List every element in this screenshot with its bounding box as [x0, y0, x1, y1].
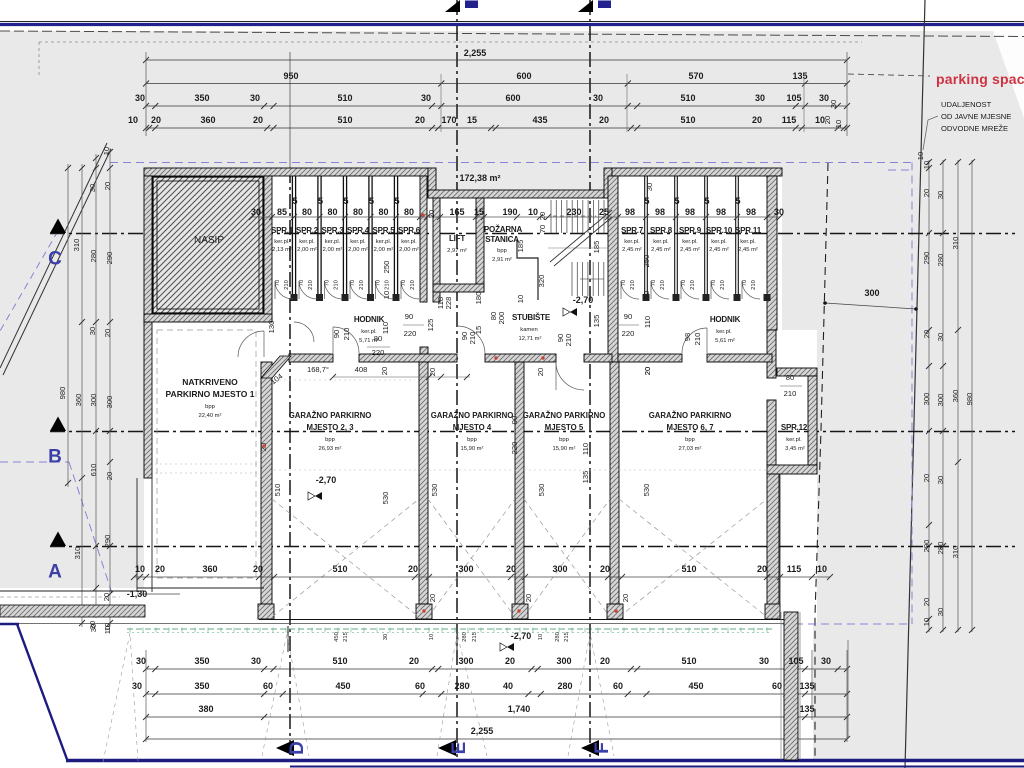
svg-text:20: 20 [506, 564, 516, 574]
svg-text:ker.pl.: ker.pl. [401, 239, 417, 245]
svg-text:2,255: 2,255 [464, 48, 487, 58]
svg-text:135: 135 [581, 471, 590, 484]
svg-text:2,45 m²: 2,45 m² [622, 247, 642, 253]
svg-text:300: 300 [105, 396, 114, 409]
svg-text:210: 210 [342, 328, 351, 341]
svg-text:MJESTO 5: MJESTO 5 [545, 423, 584, 432]
svg-text:30: 30 [135, 93, 145, 103]
svg-text:70: 70 [401, 280, 407, 286]
svg-text:10: 10 [817, 564, 827, 574]
svg-text:60: 60 [772, 681, 782, 691]
svg-text:MJESTO 2, 3: MJESTO 2, 3 [306, 423, 354, 432]
svg-text:172,38 m²: 172,38 m² [459, 173, 500, 183]
svg-text:30: 30 [755, 93, 765, 103]
svg-text:15: 15 [467, 115, 477, 125]
svg-text:70: 70 [299, 280, 305, 286]
svg-text:2,45 m²: 2,45 m² [738, 247, 758, 253]
svg-text:110: 110 [581, 443, 590, 455]
svg-text:280: 280 [555, 632, 561, 642]
svg-text:5: 5 [644, 196, 649, 206]
svg-text:280: 280 [462, 632, 468, 642]
svg-text:20: 20 [253, 115, 263, 125]
svg-text:ker.pl.: ker.pl. [711, 239, 727, 245]
svg-text:bpp: bpp [325, 437, 335, 443]
svg-text:27,03 m²: 27,03 m² [679, 446, 702, 452]
svg-text:bpp: bpp [467, 437, 477, 443]
svg-text:30: 30 [421, 93, 431, 103]
svg-text:105: 105 [788, 656, 803, 666]
svg-text:280: 280 [936, 254, 945, 267]
svg-text:20: 20 [408, 564, 418, 574]
svg-text:350: 350 [194, 656, 209, 666]
svg-text:310: 310 [951, 546, 960, 559]
svg-text:NASIP: NASIP [194, 235, 224, 246]
svg-text:20: 20 [428, 368, 437, 376]
svg-text:20: 20 [922, 330, 931, 338]
svg-text:90: 90 [405, 312, 413, 321]
svg-text:98: 98 [716, 207, 726, 217]
svg-text:510: 510 [681, 564, 696, 574]
svg-text:290: 290 [922, 252, 931, 265]
svg-text:300: 300 [458, 656, 473, 666]
svg-text:5: 5 [674, 196, 679, 206]
svg-text:30: 30 [645, 183, 654, 191]
svg-text:125: 125 [426, 319, 435, 332]
svg-text:20: 20 [155, 564, 165, 574]
svg-text:A: A [48, 562, 62, 583]
svg-text:parking spac: parking spac [936, 71, 1024, 87]
svg-text:980: 980 [965, 393, 974, 406]
svg-text:HODNIK: HODNIK [354, 315, 385, 324]
svg-text:30: 30 [251, 656, 261, 666]
svg-text:215: 215 [564, 632, 570, 642]
svg-text:bpp: bpp [497, 248, 507, 254]
svg-text:230: 230 [566, 207, 581, 217]
svg-text:SPR.7: SPR.7 [621, 226, 644, 235]
svg-text:2,91 m²: 2,91 m² [492, 257, 512, 263]
svg-text:530: 530 [381, 492, 390, 505]
svg-text:70: 70 [275, 280, 281, 286]
svg-text:320: 320 [537, 275, 546, 288]
svg-text:115: 115 [782, 115, 797, 125]
svg-text:ker.pl.: ker.pl. [624, 239, 640, 245]
svg-text:250: 250 [382, 261, 391, 274]
svg-text:30: 30 [89, 624, 98, 632]
svg-text:185: 185 [516, 240, 525, 253]
svg-text:ker.pl.: ker.pl. [350, 239, 366, 245]
svg-text:F: F [592, 742, 613, 754]
svg-text:25: 25 [599, 207, 609, 217]
svg-text:210: 210 [784, 389, 797, 398]
svg-text:SPR.11: SPR.11 [735, 226, 762, 235]
svg-text:450: 450 [335, 681, 350, 691]
svg-text:250: 250 [642, 255, 651, 268]
svg-text:530: 530 [642, 484, 651, 497]
svg-text:2,255: 2,255 [471, 726, 494, 736]
svg-text:5: 5 [292, 196, 297, 206]
svg-text:2,13 m²: 2,13 m² [272, 247, 292, 253]
svg-text:210: 210 [564, 334, 573, 347]
svg-text:GARAŽNO PARKIRNO: GARAŽNO PARKIRNO [289, 411, 372, 420]
svg-text:510: 510 [337, 93, 352, 103]
svg-text:2,00 m²: 2,00 m² [297, 247, 317, 253]
svg-text:10: 10 [538, 634, 544, 640]
svg-text:10: 10 [922, 618, 931, 626]
svg-text:10: 10 [135, 564, 145, 574]
svg-text:380: 380 [198, 704, 213, 714]
svg-text:ker.pl.: ker.pl. [740, 239, 756, 245]
svg-text:5: 5 [394, 196, 399, 206]
svg-text:600: 600 [516, 71, 531, 81]
svg-text:LIFT: LIFT [449, 234, 465, 243]
svg-text:12,71 m²: 12,71 m² [519, 336, 542, 342]
svg-text:510: 510 [332, 564, 347, 574]
svg-text:SPR.10: SPR.10 [706, 226, 733, 235]
svg-text:135: 135 [792, 71, 807, 81]
svg-text:80: 80 [378, 207, 388, 217]
svg-text:2,00 m²: 2,00 m² [374, 247, 394, 253]
svg-text:98: 98 [685, 207, 695, 217]
svg-text:90: 90 [624, 312, 632, 321]
svg-text:10: 10 [528, 207, 538, 217]
svg-text:510: 510 [273, 484, 282, 497]
svg-text:SPR.5: SPR.5 [372, 226, 395, 235]
svg-text:98: 98 [625, 207, 635, 217]
svg-text:GARAŽNO PARKIRNO: GARAŽNO PARKIRNO [523, 411, 606, 420]
svg-text:220: 220 [404, 329, 417, 338]
svg-text:20: 20 [600, 564, 610, 574]
svg-text:300: 300 [556, 656, 571, 666]
svg-text:-2,70: -2,70 [511, 631, 532, 641]
svg-text:30: 30 [829, 100, 838, 108]
svg-text:20: 20 [253, 564, 263, 574]
svg-text:SPR.9: SPR.9 [679, 226, 702, 235]
svg-text:210: 210 [308, 280, 314, 290]
svg-text:26,93 m²: 26,93 m² [319, 446, 342, 452]
svg-text:2,45 m²: 2,45 m² [709, 247, 729, 253]
svg-text:20: 20 [103, 329, 112, 337]
svg-text:SPR.8: SPR.8 [650, 226, 673, 235]
svg-text:210: 210 [410, 280, 416, 290]
svg-text:280: 280 [454, 681, 469, 691]
svg-text:170: 170 [441, 115, 456, 125]
svg-text:530: 530 [537, 484, 546, 497]
svg-text:PARKIRNO MJESTO 1: PARKIRNO MJESTO 1 [166, 389, 255, 399]
svg-text:15,90 m²: 15,90 m² [461, 446, 484, 452]
svg-text:20: 20 [380, 367, 389, 375]
svg-text:MJESTO 4: MJESTO 4 [453, 423, 492, 432]
svg-text:300: 300 [864, 288, 879, 298]
svg-text:20: 20 [103, 182, 112, 190]
svg-text:60: 60 [613, 681, 623, 691]
svg-text:600: 600 [505, 93, 520, 103]
svg-text:ODVODNE MREŽE: ODVODNE MREŽE [941, 124, 1008, 133]
svg-text:5: 5 [343, 196, 348, 206]
svg-text:D: D [287, 741, 308, 755]
svg-text:SPR.12: SPR.12 [781, 423, 808, 432]
svg-text:220: 220 [510, 442, 519, 455]
svg-text:B: B [48, 447, 62, 468]
svg-text:135: 135 [592, 315, 601, 328]
svg-text:30: 30 [593, 93, 603, 103]
svg-text:70: 70 [711, 280, 717, 286]
svg-text:20: 20 [643, 367, 652, 375]
svg-text:115: 115 [787, 564, 802, 574]
svg-text:98: 98 [683, 333, 692, 341]
svg-text:70: 70 [376, 280, 382, 286]
svg-text:435: 435 [532, 115, 547, 125]
svg-text:30: 30 [251, 207, 261, 217]
svg-text:180: 180 [474, 292, 483, 305]
svg-text:210: 210 [660, 280, 666, 290]
svg-text:168,7°: 168,7° [307, 365, 329, 374]
svg-text:MJESTO 6, 7: MJESTO 6, 7 [666, 423, 713, 432]
svg-text:210: 210 [720, 280, 726, 290]
svg-text:30: 30 [936, 191, 945, 199]
svg-text:1,740: 1,740 [508, 704, 531, 714]
svg-text:80: 80 [353, 207, 363, 217]
svg-text:ker.pl.: ker.pl. [299, 239, 315, 245]
svg-text:15,90 m²: 15,90 m² [553, 446, 576, 452]
svg-text:5: 5 [735, 196, 740, 206]
svg-text:POŽARNA: POŽARNA [484, 225, 523, 234]
svg-text:30: 30 [936, 333, 945, 341]
svg-text:20: 20 [823, 116, 832, 124]
svg-text:E: E [449, 742, 470, 755]
svg-text:90: 90 [332, 330, 341, 338]
svg-text:SPR.4: SPR.4 [347, 226, 370, 235]
svg-text:20: 20 [105, 472, 114, 480]
svg-text:110: 110 [643, 316, 652, 328]
svg-text:220: 220 [622, 329, 635, 338]
svg-text:22,40 m²: 22,40 m² [199, 413, 222, 419]
svg-text:5: 5 [369, 196, 374, 206]
svg-text:ker.pl.: ker.pl. [682, 239, 698, 245]
svg-text:2,00 m²: 2,00 m² [348, 247, 368, 253]
svg-text:20: 20 [600, 656, 610, 666]
svg-text:300: 300 [936, 394, 945, 407]
svg-text:10: 10 [642, 291, 651, 299]
svg-text:300: 300 [89, 394, 98, 407]
svg-text:210: 210 [751, 280, 757, 290]
svg-text:30: 30 [759, 656, 769, 666]
svg-text:300: 300 [552, 564, 567, 574]
svg-text:280: 280 [89, 250, 98, 263]
svg-text:280: 280 [557, 681, 572, 691]
svg-text:80: 80 [327, 207, 337, 217]
svg-text:20: 20 [621, 594, 630, 602]
svg-text:40: 40 [503, 681, 513, 691]
svg-text:SPR.2: SPR.2 [296, 226, 319, 235]
svg-text:350: 350 [194, 681, 209, 691]
svg-text:10: 10 [916, 152, 925, 160]
svg-text:510: 510 [332, 656, 347, 666]
svg-text:10: 10 [103, 626, 112, 634]
svg-text:210: 210 [284, 280, 290, 290]
svg-text:130: 130 [267, 321, 276, 334]
svg-text:98: 98 [655, 207, 665, 217]
svg-text:20: 20 [752, 115, 762, 125]
svg-text:70: 70 [350, 280, 356, 286]
svg-text:210: 210 [385, 280, 391, 290]
svg-text:20: 20 [757, 564, 767, 574]
svg-text:70: 70 [651, 280, 657, 286]
svg-text:10: 10 [516, 295, 525, 303]
svg-text:STUBIŠTE: STUBIŠTE [512, 313, 551, 322]
svg-text:20: 20 [415, 115, 425, 125]
svg-text:80: 80 [302, 207, 312, 217]
svg-text:10: 10 [834, 120, 843, 128]
svg-text:bpp: bpp [559, 437, 569, 443]
svg-text:360: 360 [202, 564, 217, 574]
svg-text:5,61 m²: 5,61 m² [715, 338, 735, 344]
svg-text:ker.pl.: ker.pl. [716, 329, 732, 335]
svg-text:310: 310 [72, 239, 81, 252]
svg-text:20: 20 [922, 598, 931, 606]
svg-text:980: 980 [58, 387, 67, 400]
svg-text:2,45 m²: 2,45 m² [651, 247, 671, 253]
svg-text:10: 10 [102, 147, 111, 155]
svg-text:bpp: bpp [685, 437, 695, 443]
svg-text:228: 228 [444, 297, 453, 310]
svg-text:70: 70 [621, 280, 627, 286]
svg-text:530: 530 [430, 484, 439, 497]
svg-text:290: 290 [105, 252, 114, 265]
svg-text:80: 80 [404, 207, 414, 217]
svg-text:165: 165 [449, 207, 464, 217]
svg-text:ker.pl.: ker.pl. [786, 437, 802, 443]
svg-text:10: 10 [382, 291, 391, 299]
svg-text:30: 30 [819, 93, 829, 103]
svg-text:300: 300 [458, 564, 473, 574]
svg-text:2,97 m²: 2,97 m² [447, 248, 467, 254]
svg-text:210: 210 [630, 280, 636, 290]
svg-text:20: 20 [409, 656, 419, 666]
svg-text:610: 610 [89, 464, 98, 477]
svg-text:98: 98 [746, 207, 756, 217]
svg-text:210: 210 [693, 333, 702, 346]
svg-text:20: 20 [524, 594, 533, 602]
svg-text:300: 300 [922, 393, 931, 406]
svg-text:GARAŽNO PARKIRNO: GARAŽNO PARKIRNO [649, 411, 732, 420]
svg-text:290: 290 [922, 540, 931, 553]
svg-text:220: 220 [372, 348, 385, 357]
svg-text:30: 30 [250, 93, 260, 103]
svg-text:ker.pl.: ker.pl. [376, 239, 392, 245]
svg-text:30: 30 [136, 656, 146, 666]
svg-text:210: 210 [334, 280, 340, 290]
svg-text:70: 70 [742, 280, 748, 286]
svg-text:10: 10 [429, 634, 435, 640]
svg-text:350: 350 [194, 93, 209, 103]
svg-text:30: 30 [936, 608, 945, 616]
svg-text:SPR.3: SPR.3 [321, 226, 344, 235]
svg-text:20: 20 [922, 189, 931, 197]
svg-text:70: 70 [681, 280, 687, 286]
svg-text:2,45 m²: 2,45 m² [680, 247, 700, 253]
svg-text:bpp: bpp [205, 404, 215, 410]
svg-text:30: 30 [88, 184, 97, 192]
svg-text:570: 570 [688, 71, 703, 81]
svg-text:510: 510 [680, 93, 695, 103]
svg-text:30: 30 [774, 207, 784, 217]
svg-text:-2,70: -2,70 [316, 475, 337, 485]
svg-text:HODNIK: HODNIK [710, 315, 741, 324]
svg-text:C: C [48, 249, 62, 270]
svg-text:UDALJENOST: UDALJENOST [941, 100, 992, 109]
svg-text:30: 30 [383, 634, 389, 640]
svg-text:20: 20 [427, 210, 436, 218]
svg-text:30: 30 [88, 327, 97, 335]
svg-text:110: 110 [381, 322, 390, 334]
svg-text:20: 20 [538, 212, 547, 220]
svg-text:360: 360 [951, 390, 960, 403]
svg-text:85: 85 [277, 207, 287, 217]
svg-text:310: 310 [73, 547, 82, 560]
svg-text:ker.pl.: ker.pl. [653, 239, 669, 245]
svg-text:510: 510 [680, 115, 695, 125]
svg-text:280: 280 [936, 542, 945, 555]
svg-text:510: 510 [681, 656, 696, 666]
svg-text:360: 360 [74, 394, 83, 407]
svg-text:90: 90 [510, 416, 519, 424]
svg-text:30: 30 [821, 656, 831, 666]
svg-text:60: 60 [415, 681, 425, 691]
svg-text:NATKRIVENO: NATKRIVENO [182, 377, 238, 387]
svg-text:200: 200 [497, 312, 506, 325]
svg-text:105: 105 [786, 93, 801, 103]
svg-text:3,45 m²: 3,45 m² [785, 446, 805, 452]
svg-text:5: 5 [318, 196, 323, 206]
svg-text:215: 215 [472, 632, 478, 642]
svg-text:190: 190 [502, 207, 517, 217]
svg-text:210: 210 [359, 280, 365, 290]
svg-text:-1,30: -1,30 [127, 589, 148, 599]
svg-text:20: 20 [536, 368, 545, 376]
svg-text:135: 135 [799, 681, 814, 691]
svg-text:SPR.6: SPR.6 [398, 226, 421, 235]
svg-text:20: 20 [505, 656, 515, 666]
svg-text:SPR.1: SPR.1 [271, 226, 294, 235]
svg-text:80: 80 [374, 334, 382, 343]
svg-text:20: 20 [428, 594, 437, 602]
svg-text:80: 80 [786, 373, 794, 382]
svg-text:10: 10 [922, 161, 931, 169]
svg-text:215: 215 [343, 632, 349, 642]
svg-text:5: 5 [704, 196, 709, 206]
svg-text:210: 210 [468, 332, 477, 345]
svg-text:-2,70: -2,70 [573, 295, 594, 305]
svg-text:408: 408 [355, 365, 368, 374]
svg-text:210: 210 [690, 280, 696, 290]
svg-text:2,00 m²: 2,00 m² [323, 247, 343, 253]
svg-text:450: 450 [688, 681, 703, 691]
svg-text:15: 15 [474, 207, 484, 217]
svg-text:ker.pl.: ker.pl. [274, 239, 290, 245]
svg-text:2,00 m²: 2,00 m² [399, 247, 419, 253]
svg-text:450: 450 [334, 632, 340, 642]
svg-text:30: 30 [936, 476, 945, 484]
svg-text:20: 20 [599, 115, 609, 125]
svg-text:70: 70 [325, 280, 331, 286]
svg-text:185: 185 [592, 241, 601, 254]
svg-text:60: 60 [263, 681, 273, 691]
svg-text:OD JAVNE MJESNE: OD JAVNE MJESNE [941, 112, 1011, 121]
svg-text:kamen: kamen [520, 327, 537, 333]
svg-text:290: 290 [103, 535, 112, 548]
svg-text:70: 70 [538, 225, 547, 233]
svg-text:ker.pl.: ker.pl. [325, 239, 341, 245]
